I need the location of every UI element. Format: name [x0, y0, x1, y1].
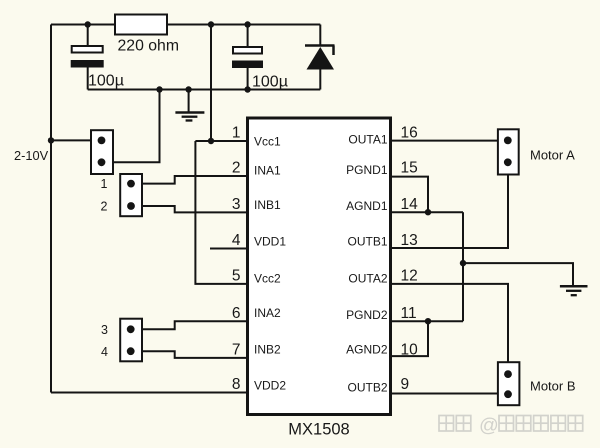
- connector J2 inputs 1: [120, 174, 142, 216]
- svg-text:MX1508: MX1508: [288, 421, 349, 439]
- wire PGND2 row: [391, 320, 464, 322]
- wire to right ground: [463, 263, 573, 285]
- svg-text:OUTA1: OUTA1: [348, 133, 387, 147]
- svg-text:16: 16: [401, 125, 418, 142]
- svg-text:AGND1: AGND1: [346, 199, 388, 213]
- junction dot bottom rail / GND1: [185, 86, 191, 92]
- junction dot AGND1 row: [425, 209, 431, 215]
- wire OUTA1 to Motor A pin1: [391, 140, 508, 142]
- wire ground bus vertical: [462, 212, 464, 321]
- connector J1 2-10V: [91, 130, 113, 174]
- svg-text:7: 7: [232, 341, 241, 358]
- wire J2 pin2 to INB1: [131, 206, 248, 212]
- wire bottom rail of top section: [88, 89, 321, 91]
- wire OUTB2 to Motor B pin2: [391, 393, 509, 395]
- svg-text:9: 9: [401, 376, 410, 393]
- wire J3 pin3 to INA2: [131, 321, 248, 329]
- ground GND2: [560, 286, 588, 295]
- junction dot top rail / C2: [244, 21, 250, 27]
- junction dot bottom rail / C2: [244, 86, 250, 92]
- wire Vcc1 riser: [210, 25, 212, 142]
- svg-text:12: 12: [401, 267, 418, 284]
- wire AGND2 up: [391, 321, 429, 356]
- wire 2-10V to J1: [51, 139, 93, 141]
- svg-text:2: 2: [232, 160, 241, 177]
- svg-text:OUTA2: OUTA2: [348, 271, 387, 285]
- svg-text:14: 14: [401, 196, 419, 213]
- svg-text:PGND1: PGND1: [346, 163, 388, 177]
- wire C2 stems: [247, 25, 249, 48]
- resistor R1: [115, 15, 167, 35]
- svg-text:VDD1: VDD1: [254, 235, 286, 249]
- svg-text:5: 5: [232, 267, 241, 284]
- svg-text:Motor B: Motor B: [530, 379, 576, 394]
- capacitor C2: [232, 47, 263, 68]
- wire left rail: [50, 25, 52, 393]
- wire C1 stems: [87, 25, 89, 47]
- svg-text:100µ: 100µ: [252, 74, 288, 91]
- junction dot top rail / Vcc1 riser: [208, 21, 214, 27]
- svg-text:Vcc2: Vcc2: [254, 272, 281, 286]
- wire AGND1 row: [391, 211, 464, 213]
- svg-text:INB2: INB2: [254, 342, 281, 356]
- svg-text:INA2: INA2: [254, 306, 281, 320]
- junction dot left rail / J1: [48, 137, 54, 143]
- junction dot PGND2 row: [425, 318, 431, 324]
- svg-text:PGND2: PGND2: [346, 308, 388, 322]
- wire diode branch: [319, 25, 321, 46]
- svg-text:8: 8: [232, 376, 241, 393]
- svg-text:3: 3: [232, 196, 241, 213]
- svg-text:Vcc1: Vcc1: [254, 134, 281, 148]
- svg-text:4: 4: [101, 345, 108, 359]
- svg-text:1: 1: [232, 125, 241, 142]
- IC U1 MX1508: [248, 118, 391, 415]
- capacitor C1: [71, 46, 104, 68]
- diode D1 zener: [305, 46, 335, 70]
- wire Vcc1-Vcc2 tie: [195, 141, 247, 284]
- svg-text:@: @: [479, 415, 499, 437]
- svg-text:4: 4: [232, 232, 241, 249]
- svg-text:15: 15: [401, 160, 418, 177]
- junction dot Vcc1 row: [208, 138, 214, 144]
- wire J3 pin4 to INB2: [131, 351, 248, 358]
- svg-text:2-10V: 2-10V: [14, 148, 49, 163]
- wire VDD1 stub: [210, 248, 248, 250]
- wire OUTA2 to Motor B pin1: [391, 284, 509, 374]
- ground GND1: [175, 113, 204, 121]
- wire top rail: [51, 24, 320, 26]
- svg-text:3: 3: [101, 323, 108, 337]
- svg-text:13: 13: [401, 232, 418, 249]
- junction dot bottom rail / J1 branch: [156, 86, 162, 92]
- wire PGND1 down: [391, 177, 429, 213]
- connector J4 Motor A: [498, 129, 519, 174]
- wire J1 pin2 to bottom rail: [102, 90, 160, 163]
- svg-text:1: 1: [101, 177, 108, 191]
- wire OUTB1 to Motor A pin2: [391, 162, 509, 248]
- junction dot ground bus: [460, 260, 466, 266]
- wire ground GND1 stem: [188, 90, 190, 113]
- watermark zhihu: [439, 415, 583, 437]
- svg-text:AGND2: AGND2: [346, 343, 388, 357]
- wire pin1 row Vcc1: [195, 140, 247, 142]
- svg-text:220 ohm: 220 ohm: [118, 38, 179, 55]
- svg-text:OUTB2: OUTB2: [347, 381, 387, 395]
- svg-text:10: 10: [401, 341, 419, 358]
- connector J3 inputs 2: [120, 319, 142, 362]
- svg-text:INA1: INA1: [254, 163, 281, 177]
- svg-text:6: 6: [232, 305, 241, 322]
- wire VDD2 bottom row: [51, 392, 248, 394]
- svg-text:Motor A: Motor A: [530, 148, 575, 163]
- svg-text:OUTB1: OUTB1: [347, 234, 387, 248]
- svg-text:INB1: INB1: [254, 198, 281, 212]
- svg-text:2: 2: [101, 200, 108, 214]
- wire J2 pin1 to INA1: [131, 176, 248, 184]
- connector J5 Motor B: [498, 362, 520, 405]
- svg-text:11: 11: [401, 305, 417, 322]
- junction dot top rail / C1: [85, 21, 91, 27]
- svg-text:100µ: 100µ: [88, 73, 124, 90]
- svg-text:VDD2: VDD2: [254, 378, 286, 392]
